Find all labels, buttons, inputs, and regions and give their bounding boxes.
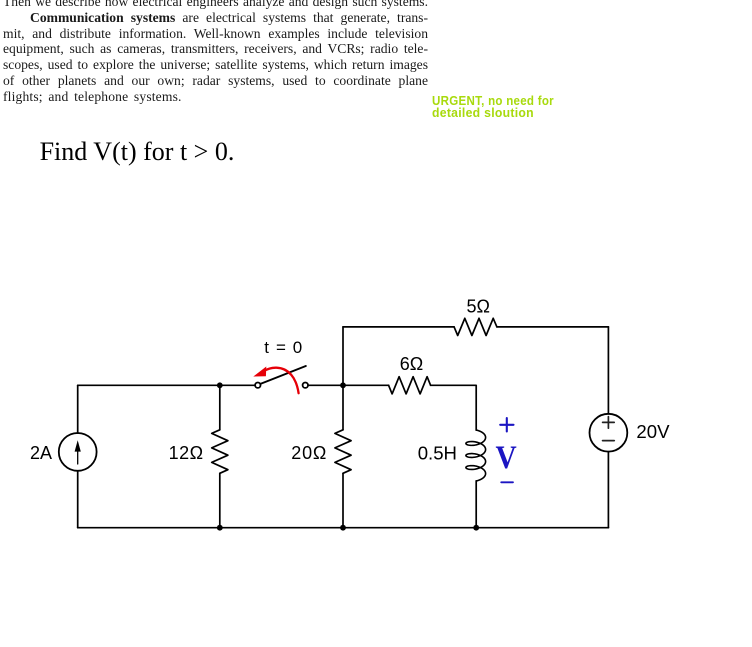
inductor L1 0.5H (coil with loops) <box>466 430 486 481</box>
resistor R1 12-ohm (vertical zigzag) <box>212 430 228 474</box>
label t = 0 <box>264 338 302 357</box>
junction node dot at 12-ohm bottom <box>217 525 223 531</box>
label 5-ohm value <box>467 297 490 317</box>
junction node dot at 20-ohm bottom <box>340 525 346 531</box>
svg-text:0.5H: 0.5H <box>418 443 457 464</box>
label 2A <box>30 443 52 463</box>
label 12-ohm value <box>169 443 204 463</box>
svg-text:t = 0: t = 0 <box>264 338 302 357</box>
wire: right column top (top rail down to 20V source) <box>607 327 609 414</box>
label minus sign of V (blue) <box>501 481 513 483</box>
voltage source V1 20V (circle with plus minus) <box>590 414 628 452</box>
wire: 6-ohm leads on middle rail and corner down to inductor <box>343 385 476 430</box>
wire: right column bottom (20V source to bottom rail) <box>607 452 609 528</box>
junction node dot at inductor bottom <box>473 525 479 531</box>
wire: vertical riser from middle node up to top rail <box>342 327 344 385</box>
label V (blue voltage variable) <box>496 440 517 476</box>
wire: top rail with 5-ohm leads <box>343 326 608 328</box>
switch action red arc arrow <box>253 367 298 394</box>
wire: inductor bottom lead <box>475 481 477 528</box>
label plus sign of V (blue) <box>500 418 513 431</box>
label 0.5H value <box>418 443 457 464</box>
svg-text:2A: 2A <box>30 443 52 463</box>
label 6-ohm value <box>400 354 423 374</box>
current source I1 2A (circle with up arrow) <box>59 433 97 471</box>
wire: middle rail from switch to node at 20-ohm column <box>308 384 343 386</box>
wire: 20-ohm column leads <box>342 385 344 527</box>
svg-text:12Ω: 12Ω <box>169 443 204 463</box>
resistor R2 20-ohm (vertical zigzag) <box>335 430 351 474</box>
svg-text:6Ω: 6Ω <box>400 354 423 374</box>
svg-text:5Ω: 5Ω <box>467 297 490 317</box>
wire: middle rail left segment (current source top to 12-ohm top) <box>78 384 255 386</box>
junction node dot at 12-ohm top <box>217 382 223 388</box>
resistor R4 5-ohm (horizontal zigzag on top rail) <box>454 318 497 335</box>
junction node dot at middle node (20-ohm top) <box>340 382 346 388</box>
svg-text:20V: 20V <box>636 421 670 442</box>
svg-text:V: V <box>496 440 517 476</box>
wire: 12-ohm column leads <box>219 385 221 527</box>
switch SW t=0 (open circles and blade) <box>255 366 308 388</box>
label 20-ohm value <box>291 443 327 463</box>
wire: bottom rail <box>78 527 609 529</box>
resistor R3 6-ohm (horizontal zigzag on middle rail) <box>389 377 431 394</box>
wire: left column (current source leads) <box>77 385 79 527</box>
svg-text:20Ω: 20Ω <box>291 443 327 463</box>
label 20V <box>636 421 670 442</box>
